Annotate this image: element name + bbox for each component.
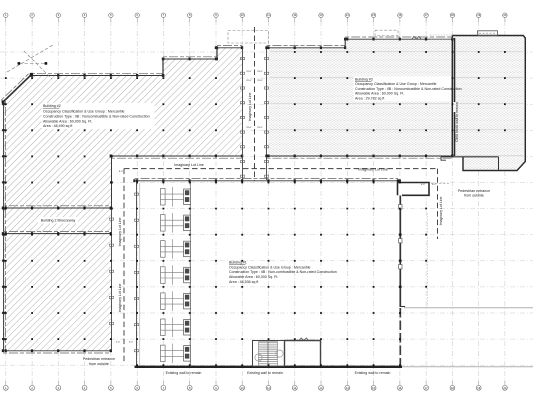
dashed canopy above building 3 west wing — [375, 30, 398, 35]
svg-text:Imaginary Lot Line: Imaginary Lot Line — [174, 163, 204, 167]
building 2 north wall step at col 8 — [216, 48, 218, 60]
svg-text:Existing wall to remain: Existing wall to remain — [166, 371, 202, 375]
existing wall label 1 — [166, 371, 202, 375]
building 2 label title — [43, 104, 61, 108]
building 1 south wall (existing wall to remain, heavy) — [135, 366, 403, 368]
building 3 interior south wall of east block — [441, 157, 499, 171]
svg-text:Occupancy Classification & Use: Occupancy Classification & Use Group : M… — [355, 82, 437, 86]
imaginary lot line label east — [358, 167, 388, 171]
svg-text:8'-0": 8'-0" — [119, 171, 124, 173]
building 2 southeast wall at row 4 — [110, 155, 244, 159]
building 1 NE entry vestibule — [398, 183, 450, 196]
svg-text:Pedestrian entrance: Pedestrian entrance — [458, 189, 490, 193]
svg-text:Area : 48,536 sq ft: Area : 48,536 sq ft — [229, 280, 258, 284]
imaginary lot line vertical west — [123, 169, 125, 362]
top grid bubbles — [4, 13, 507, 22]
svg-text:4'-0": 4'-0" — [129, 342, 134, 344]
breezeway north wall — [2, 206, 112, 210]
building 3 label title — [355, 77, 373, 81]
svg-text:Building #3: Building #3 — [355, 77, 373, 81]
survey points at NW chamfer — [18, 62, 48, 65]
wavy texture rows building 3 west wing — [270, 51, 449, 130]
svg-text:23'-0": 23'-0" — [257, 127, 263, 129]
svg-text:4'-0": 4'-0" — [421, 184, 426, 186]
svg-text:Imaginary Lot Line: Imaginary Lot Line — [439, 197, 443, 226]
imaginary lot line vertical east — [437, 169, 439, 239]
building 3 label background — [354, 76, 452, 101]
svg-text:Occupancy Classification & Use: Occupancy Classification & Use Group : M… — [229, 265, 311, 269]
svg-text:from outside: from outside — [464, 194, 484, 198]
building 3 east block heavy outline — [452, 36, 525, 171]
building 3 south wall — [265, 155, 453, 159]
building 2 north wall (middle segment) — [162, 57, 218, 61]
svg-text:Construction Type : IIB : Nonc: Construction Type : IIB : Noncombustible… — [355, 87, 462, 91]
svg-text:Construction Type : IIB : Nonc: Construction Type : IIB : Noncombustible… — [43, 114, 150, 118]
wavy texture rows building 3 east block — [456, 51, 523, 156]
imaginary lot line label west — [174, 163, 204, 167]
stair room at building 1 south wall — [253, 341, 285, 367]
imaginary lot line vertical through connector corridor — [254, 27, 256, 181]
svg-text:Existing wall to remain: Existing wall to remain — [247, 371, 283, 375]
building 2 north wall (west segment) — [30, 73, 165, 77]
building 1 north wall — [133, 179, 401, 183]
svg-text:Construction Type : IIB : Non-: Construction Type : IIB : Non-combustibl… — [229, 270, 337, 274]
pedestrian entrance label southwest — [83, 357, 115, 366]
double door mark on building 3 north wall — [412, 36, 421, 39]
building 1 tenant module 6 — [161, 318, 191, 338]
building 3 north wall (west segment) — [265, 46, 346, 50]
svg-text:Area : 29,782 sq ft: Area : 29,782 sq ft — [355, 97, 384, 101]
building 3 north wall step — [344, 39, 346, 48]
svg-text:Imaginary Lot Line: Imaginary Lot Line — [118, 284, 122, 313]
svg-text:from outside: from outside — [89, 362, 109, 366]
building 1 label title — [229, 260, 247, 264]
svg-text:4'-0": 4'-0" — [432, 184, 437, 186]
svg-text:Imaginary Lot Line: Imaginary Lot Line — [358, 167, 388, 171]
svg-text:Building #1: Building #1 — [229, 260, 247, 264]
building 2 north wall step at col 6 — [162, 59, 164, 76]
canopy edge line east of building 1 — [427, 213, 429, 307]
existing site wall line at row 308 — [404, 307, 533, 309]
svg-text:Occupancy Classification & Use: Occupancy Classification & Use Group : M… — [43, 110, 125, 114]
building 2 south wall — [2, 349, 112, 353]
building 3 east block stippled area — [452, 36, 525, 171]
building 1 label body — [229, 265, 337, 284]
svg-text:23'-0": 23'-0" — [246, 80, 252, 82]
building 2 hatched area (upper L + breezeway + lower block) — [3, 48, 242, 351]
corridor dimension texts — [116, 71, 437, 344]
svg-text:CMU block wall to remain: CMU block wall to remain — [455, 102, 459, 142]
svg-text:Imaginary Lot Line: Imaginary Lot Line — [118, 218, 122, 247]
connector corridor west wall — [240, 48, 244, 181]
building 1 tenant module 2 — [161, 213, 191, 233]
existing wall label 3 — [355, 371, 391, 375]
interior column dots — [5, 51, 506, 366]
building 3 west wing stippled area — [268, 39, 452, 157]
CMU block wall to remain (vertical heavy wall) — [454, 38, 456, 156]
building 1 east wall foot — [400, 306, 406, 308]
svg-text:4'-0": 4'-0" — [116, 342, 121, 344]
building 1 tenant module 5 — [161, 291, 191, 311]
svg-text:Allowable Area : 60,000 Sq. Ft: Allowable Area : 60,000 Sq. Ft. — [229, 275, 278, 279]
building 1 interior corridor wall — [190, 181, 192, 367]
svg-text:Building 2 Breezeway: Building 2 Breezeway — [41, 219, 76, 223]
svg-text:23'-0": 23'-0" — [257, 80, 263, 82]
svg-text:23'-0": 23'-0" — [246, 127, 252, 129]
breezeway label — [41, 219, 76, 223]
building 1 west wall — [134, 183, 138, 366]
svg-text:Pedestrian entrance: Pedestrian entrance — [83, 357, 115, 361]
building 1 tenant module 1 — [161, 187, 191, 207]
connector corridor east wall — [264, 48, 268, 181]
building 2 label body — [43, 110, 150, 129]
column grid horizontal lines — [0, 52, 533, 365]
building 2 west wall — [2, 101, 6, 351]
existing site wall line east continuation — [402, 366, 533, 368]
building 2 label background — [42, 103, 155, 129]
svg-text:Existing wall to remain: Existing wall to remain — [355, 371, 391, 375]
building 2 north wall (east segment) — [215, 46, 243, 50]
breezeway label background — [38, 217, 78, 224]
building 3 north wall (east segment) — [344, 37, 453, 41]
building 1 tenant module 3 — [161, 239, 191, 259]
building 1 east wall (north part) — [399, 196, 402, 307]
svg-text:Imaginary Lot Line: Imaginary Lot Line — [248, 93, 252, 122]
svg-text:23'-0": 23'-0" — [246, 71, 252, 73]
imaginary lot line horizontal — [124, 168, 438, 170]
dashed construction X at NW chamfer — [7, 45, 53, 79]
building 2 east jog wall — [110, 155, 113, 209]
building 1 east wall door jambs — [399, 205, 402, 269]
building 2 lower east wall — [109, 208, 113, 351]
svg-text:Allowable Area : 60,000 Sq. Ft: Allowable Area : 60,000 Sq. Ft. — [355, 92, 404, 96]
building 1 tenant module 4 — [161, 265, 191, 285]
svg-text:Building #2: Building #2 — [43, 104, 61, 108]
dashed canopy rect above connector corridor — [228, 31, 269, 44]
building 1 east wall dashed existing section — [399, 308, 401, 366]
building 3 label body — [355, 82, 462, 101]
roof notch on building 3 east block — [478, 31, 498, 36]
building 1 west wall inner line — [139, 183, 141, 366]
vestibule room at building 1 south wall — [285, 338, 321, 366]
bottom grid bubbles — [3, 381, 507, 391]
existing wall label 2 — [247, 371, 283, 375]
svg-text:Allowable Area : 60,000 Sq. Ft: Allowable Area : 60,000 Sq. Ft. — [43, 119, 92, 123]
dotted survey rect left of east block — [430, 35, 452, 39]
breezeway south wall — [2, 231, 112, 235]
svg-text:23'-0": 23'-0" — [257, 71, 263, 73]
svg-text:Area : 48,490 sq ft: Area : 48,490 sq ft — [43, 124, 72, 128]
pedestrian entrance label northeast — [458, 189, 490, 198]
building 2 NW chamfer wall — [1, 73, 33, 104]
building 1 tenant module 7 — [161, 344, 191, 364]
